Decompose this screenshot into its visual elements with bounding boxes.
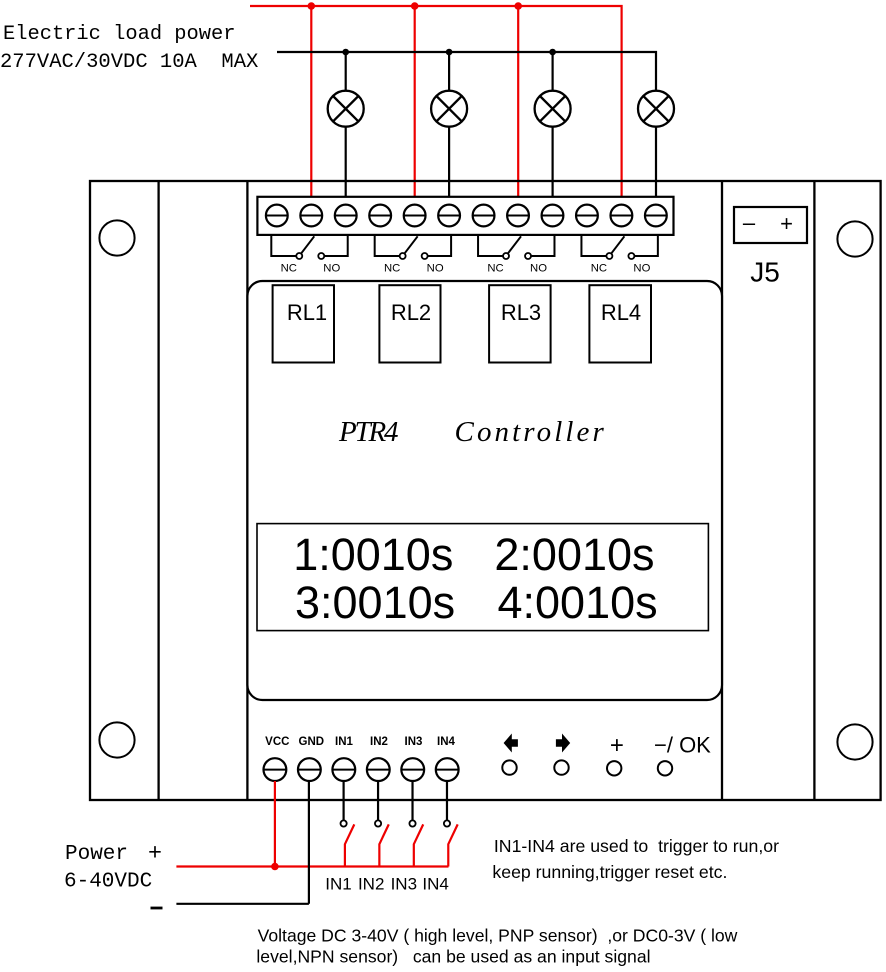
svg-text:VCC: VCC (265, 736, 289, 748)
svg-text:IN3: IN3 (405, 736, 423, 748)
svg-text:277VAC/30VDC 10A MAX: 277VAC/30VDC 10A MAX (0, 51, 258, 74)
svg-text:+: + (610, 732, 624, 759)
svg-text:IN2: IN2 (370, 736, 388, 748)
svg-text:IN1-IN4 are used to trigger t: IN1-IN4 are used to trigger to run,or (494, 836, 779, 856)
svg-text:+: + (148, 839, 162, 865)
svg-text:NO: NO (633, 263, 650, 275)
svg-text:NC: NC (591, 263, 607, 275)
svg-text:NO: NO (427, 263, 444, 275)
svg-text:+: + (780, 211, 793, 236)
svg-text:NO: NO (323, 263, 340, 275)
svg-text:6-40VDC: 6-40VDC (64, 871, 152, 894)
svg-text:keep running,trigger reset etc: keep running,trigger reset etc. (492, 862, 727, 882)
svg-text:NC: NC (384, 263, 400, 275)
svg-text:IN3: IN3 (391, 875, 417, 894)
svg-text:RL4: RL4 (601, 300, 641, 325)
svg-text:level,NPN sensor) can be use: level,NPN sensor) can be used as an inpu… (256, 947, 650, 967)
svg-text:RL1: RL1 (287, 300, 327, 325)
svg-text:RL3: RL3 (501, 300, 541, 325)
svg-text:1:0010s: 1:0010s (293, 529, 453, 580)
svg-text:Voltage DC 3-40V ( high level,: Voltage DC 3-40V ( high level, PNP senso… (258, 926, 738, 946)
svg-text:IN1: IN1 (325, 875, 351, 894)
svg-text:IN4: IN4 (422, 875, 448, 894)
svg-text:3:0010s: 3:0010s (295, 577, 455, 628)
svg-text:GND: GND (299, 736, 325, 748)
svg-text:RL2: RL2 (391, 300, 431, 325)
svg-text:IN1: IN1 (335, 736, 354, 748)
svg-text:PTR4: PTR4 (338, 416, 398, 448)
svg-text:–: – (743, 210, 756, 235)
svg-text:NC: NC (487, 263, 503, 275)
svg-text:2:0010s: 2:0010s (494, 529, 654, 580)
svg-text:−/ OK: −/ OK (654, 733, 711, 758)
svg-text:4:0010s: 4:0010s (498, 577, 658, 628)
svg-text:Controller: Controller (455, 416, 607, 448)
svg-text:IN4: IN4 (437, 736, 456, 748)
svg-text:NO: NO (530, 263, 547, 275)
svg-text:NC: NC (281, 263, 297, 275)
svg-text:J5: J5 (750, 257, 780, 288)
svg-text:Electric load power: Electric load power (3, 23, 236, 46)
svg-text:Power: Power (65, 843, 128, 866)
svg-text:IN2: IN2 (358, 875, 384, 894)
